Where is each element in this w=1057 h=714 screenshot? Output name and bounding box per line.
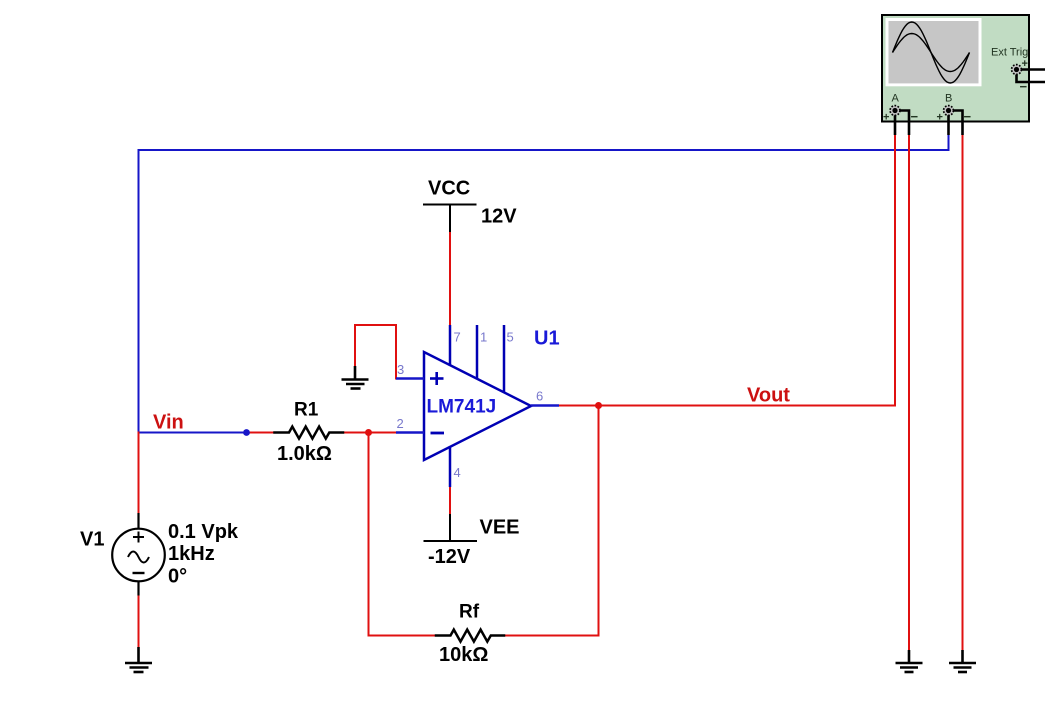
- oscilloscope waveform trace small: [893, 34, 970, 72]
- source V1 minus marker: [133, 572, 145, 574]
- wire red Vin node to V1: [137, 433, 139, 514]
- label channel B: [945, 93, 952, 105]
- pin number 1: [480, 330, 487, 345]
- pin number 4: [454, 465, 461, 480]
- node junction dot Vin (blue): [243, 429, 250, 436]
- channel B minus marker: [964, 109, 972, 124]
- wire red scope A- to ground: [908, 135, 910, 651]
- svg-text:B: B: [945, 93, 952, 105]
- value 10k ohm: [439, 644, 488, 666]
- channel B minus stub: [949, 111, 963, 136]
- svg-text:A: A: [892, 93, 900, 105]
- wire red Vout to scope A+: [559, 135, 895, 406]
- channel B terminal: [944, 106, 954, 116]
- svg-text:VEE: VEE: [480, 517, 520, 539]
- svg-text:5: 5: [507, 330, 514, 345]
- pin 7 line: [449, 325, 452, 366]
- resistor Rf: [436, 630, 504, 642]
- ground at V1: [125, 647, 152, 672]
- pin 4 line: [449, 446, 452, 487]
- svg-text:VCC: VCC: [428, 178, 470, 200]
- svg-text:−: −: [911, 109, 919, 124]
- power symbol VEE: [424, 514, 478, 541]
- op-amp part label LM741J: [427, 397, 497, 418]
- pin number 7: [454, 330, 461, 345]
- pin 6 stub: [531, 404, 559, 406]
- op-amp minus input marker: [431, 432, 445, 435]
- pin number 2: [397, 416, 404, 431]
- source V1 top lead: [137, 513, 139, 529]
- label Rf: [459, 602, 480, 623]
- svg-text:1: 1: [480, 330, 487, 345]
- svg-text:LM741J: LM741J: [427, 397, 497, 418]
- wire red V1 to ground: [137, 595, 139, 648]
- wire red feedback right vertical: [504, 406, 599, 636]
- WIRES-ORTHO: [139, 135, 963, 651]
- source V1 sine marker: [128, 552, 149, 563]
- source V1 plus marker: [133, 532, 144, 543]
- svg-text:1.0kΩ: 1.0kΩ: [277, 443, 332, 465]
- label VEE: [480, 517, 520, 539]
- svg-text:Vin: Vin: [153, 412, 184, 434]
- channel A minus stub: [895, 111, 909, 136]
- svg-text:7: 7: [454, 330, 461, 345]
- wire red pin3 to ground loop: [355, 325, 396, 379]
- label R1: [294, 400, 319, 421]
- svg-text:0.1 Vpk: 0.1 Vpk: [168, 521, 239, 543]
- oscilloscope waveform trace big: [893, 22, 970, 83]
- ext trig terminal: [1012, 65, 1022, 75]
- node junction dot Vout (red): [595, 402, 602, 409]
- value 0 deg: [168, 566, 187, 588]
- svg-text:Rf: Rf: [459, 602, 480, 623]
- svg-text:Ext Trig: Ext Trig: [991, 47, 1028, 59]
- power symbol VCC: [423, 205, 477, 233]
- wire red scope B- to ground: [961, 135, 963, 651]
- op-amp designator U1: [534, 328, 560, 350]
- svg-text:R1: R1: [294, 400, 319, 421]
- channel A plus stub: [894, 111, 897, 136]
- ext trig plus marker: [1022, 58, 1028, 70]
- label channel A: [892, 93, 900, 105]
- net label Vin: [153, 412, 184, 434]
- channel A minus marker: [911, 109, 919, 124]
- svg-text:Vout: Vout: [747, 385, 790, 407]
- label V1: [80, 529, 104, 551]
- svg-text:U1: U1: [534, 328, 560, 350]
- oscilloscope XSC1 body: [882, 15, 1029, 122]
- label Ext Trig: [991, 47, 1028, 59]
- svg-text:−: −: [964, 109, 972, 124]
- svg-text:+: +: [883, 112, 889, 124]
- pin 1 line: [476, 325, 479, 379]
- svg-text:-12V: -12V: [428, 546, 471, 568]
- op-amp plus input marker: [430, 372, 444, 385]
- value 1.0k ohm: [277, 443, 332, 465]
- ext trig minus marker: [1020, 79, 1028, 94]
- label VCC: [428, 178, 470, 200]
- source V1 bottom lead: [137, 582, 139, 596]
- wire blue Vin horizontal: [139, 431, 248, 433]
- value 1kHz: [168, 543, 215, 565]
- pin number 5: [507, 330, 514, 345]
- channel B plus marker: [937, 112, 943, 124]
- svg-text:4: 4: [454, 465, 461, 480]
- pin 3 stub: [396, 377, 424, 379]
- net label Vout: [747, 385, 790, 407]
- pin 2 stub: [396, 431, 424, 433]
- channel B plus stub: [947, 111, 950, 136]
- wire red pin4 to VEE: [449, 486, 451, 515]
- pin number 6: [536, 389, 543, 404]
- channel A plus marker: [883, 112, 889, 124]
- ground at scope B-: [949, 650, 976, 672]
- pin number 3: [397, 362, 404, 377]
- node junction dot node 2 (red): [365, 429, 372, 436]
- wire red feedback left vertical: [369, 433, 437, 636]
- oscilloscope screen: [886, 18, 982, 86]
- value -12V: [428, 546, 471, 568]
- ground at scope A-: [896, 650, 923, 672]
- svg-text:10kΩ: 10kΩ: [439, 644, 488, 666]
- op-amp U1 triangle: [424, 352, 531, 460]
- pin 5 line: [503, 325, 506, 392]
- wire blue top horizontal (Vin to scope B+): [139, 135, 949, 433]
- ext trig wire stubs: [1017, 70, 1046, 83]
- wire red VCC to pin7: [449, 231, 451, 326]
- wire red R1 to node 2: [343, 431, 397, 433]
- ground at pin 3: [342, 366, 369, 389]
- value 12V: [481, 206, 517, 228]
- svg-text:+: +: [937, 112, 943, 124]
- svg-text:V1: V1: [80, 529, 104, 551]
- svg-text:3: 3: [397, 362, 404, 377]
- svg-text:0°: 0°: [168, 566, 187, 588]
- svg-text:1kHz: 1kHz: [168, 543, 215, 565]
- svg-text:6: 6: [536, 389, 543, 404]
- wire red Vin node to R1: [247, 431, 276, 433]
- channel A terminal: [890, 106, 900, 116]
- svg-text:2: 2: [397, 416, 404, 431]
- resistor R1: [275, 427, 344, 439]
- svg-text:12V: 12V: [481, 206, 517, 228]
- source V1 circle: [112, 529, 165, 582]
- value 0.1 Vpk: [168, 521, 239, 543]
